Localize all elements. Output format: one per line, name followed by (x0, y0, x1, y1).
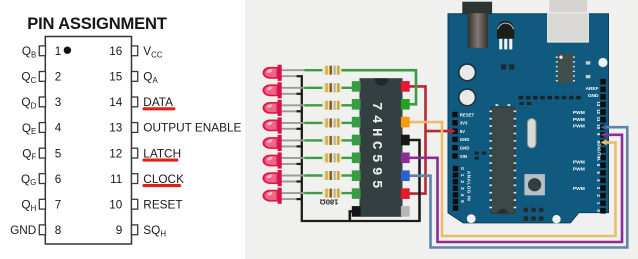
svg-text:PIN ASSIGNMENT: PIN ASSIGNMENT (27, 14, 167, 33)
svg-text:DATA: DATA (143, 95, 173, 109)
svg-text:3: 3 (596, 187, 601, 190)
svg-text:10: 10 (596, 124, 601, 130)
svg-text:AREF: AREF (585, 86, 598, 92)
svg-text:GND: GND (460, 146, 470, 151)
svg-text:11: 11 (596, 117, 601, 122)
svg-text:LATCH: LATCH (143, 146, 181, 160)
svg-text:1: 1 (596, 202, 601, 205)
svg-text:4: 4 (55, 122, 62, 135)
svg-text:1: 1 (55, 45, 62, 58)
svg-text:DIGITAL: DIGITAL (597, 143, 602, 161)
svg-text:5: 5 (459, 200, 465, 203)
svg-text:6: 6 (55, 173, 62, 186)
svg-text:12: 12 (109, 147, 122, 160)
svg-text:PWM: PWM (573, 110, 585, 116)
svg-text:GND: GND (588, 93, 599, 99)
svg-text:5: 5 (596, 171, 601, 174)
svg-text:PWM: PWM (573, 186, 585, 192)
svg-text:VIN: VIN (460, 154, 467, 159)
svg-text:GND: GND (460, 137, 470, 142)
svg-text:7: 7 (55, 198, 62, 211)
svg-text:GND: GND (10, 223, 36, 237)
svg-text:OUTPUT ENABLE: OUTPUT ENABLE (143, 121, 241, 135)
svg-text:CLOCK: CLOCK (143, 172, 184, 186)
svg-text:2: 2 (596, 194, 601, 197)
svg-text:3: 3 (55, 96, 62, 109)
svg-text:2: 2 (55, 71, 62, 84)
svg-text:9: 9 (116, 224, 123, 237)
svg-text:13: 13 (109, 122, 122, 135)
svg-text:0: 0 (459, 167, 465, 170)
svg-text:0: 0 (596, 209, 601, 212)
svg-text:74HC595: 74HC595 (368, 102, 384, 193)
svg-text:13: 13 (596, 101, 601, 107)
svg-text:2: 2 (459, 180, 465, 183)
svg-text:9: 9 (596, 133, 601, 136)
svg-text:4: 4 (459, 194, 465, 197)
svg-text:4: 4 (596, 179, 601, 182)
svg-text:RESET: RESET (143, 197, 182, 211)
svg-text:5V: 5V (460, 129, 465, 134)
svg-text:1: 1 (459, 174, 465, 177)
svg-text:PWM: PWM (573, 159, 585, 165)
svg-text:6: 6 (596, 164, 601, 167)
svg-text:12: 12 (596, 109, 601, 115)
svg-text:15: 15 (109, 71, 123, 84)
svg-text:8: 8 (55, 224, 62, 237)
svg-text:10: 10 (109, 198, 123, 211)
svg-text:ANALOG IN: ANALOG IN (466, 171, 472, 202)
svg-text:3V3: 3V3 (460, 121, 468, 126)
svg-text:RESET: RESET (460, 112, 475, 117)
svg-text:180Ω: 180Ω (320, 198, 339, 207)
svg-text:14: 14 (109, 96, 123, 109)
svg-text:PWM: PWM (573, 117, 585, 123)
svg-text:3: 3 (459, 187, 465, 190)
svg-text:5: 5 (55, 147, 62, 160)
svg-text:PWM: PWM (573, 124, 585, 130)
svg-text:11: 11 (110, 173, 122, 186)
svg-text:PWM: PWM (573, 167, 585, 173)
svg-text:16: 16 (109, 45, 122, 58)
